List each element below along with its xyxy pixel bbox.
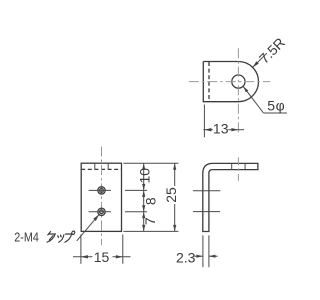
- svg-text:13: 13: [213, 121, 229, 137]
- front view bend hidden line: [81, 168, 121, 170]
- leader 7.5R: [253, 53, 267, 67]
- dimension 2.3 line: [194, 255, 203, 257]
- dimension 15 extension lines: [80, 235, 82, 264]
- side view hole centerline: [237, 157, 239, 180]
- chain dimension line 10 8 7: [143, 163, 145, 231]
- tab view bend hidden line: [208, 62, 210, 101]
- side view upper tap centerline: [193, 190, 220, 192]
- extension line top edge: [123, 162, 178, 164]
- label katakana small tsu: [57, 235, 64, 242]
- svg-text:25: 25: [163, 187, 179, 203]
- tab view (top right): outline of rounded tab 7.5R: [203, 62, 258, 102]
- svg-text:2-M4: 2-M4: [14, 230, 39, 245]
- upper hole centerline: [89, 189, 111, 191]
- plate vertical centerline: [101, 147, 103, 246]
- leader 5-phi: [243, 86, 263, 113]
- svg-text:2.3: 2.3: [176, 249, 196, 265]
- tapped hole upper M4: [98, 187, 105, 194]
- extension line lower hole: [125, 211, 147, 213]
- svg-text:5φ: 5φ: [267, 98, 285, 114]
- dimension 2.3 extension lines: [202, 235, 204, 267]
- tab vertical centerline: [237, 48, 239, 135]
- dimension 13 line: [203, 129, 212, 131]
- side view L outline: [203, 163, 258, 231]
- hole 5-phi: [232, 75, 245, 88]
- side view hole edge lines: [231, 163, 233, 169]
- side view lower tap centerline: [193, 211, 220, 213]
- front view plate outline 15x25: [81, 163, 121, 231]
- label katakana pu: [64, 231, 75, 242]
- dimension 25 line: [174, 163, 176, 186]
- dimension 15 line: [73, 256, 93, 258]
- lower hole centerline: [89, 211, 111, 213]
- tapped hole lower M4: [98, 208, 105, 215]
- extension line upper hole: [125, 189, 147, 191]
- hidden lines of 5-phi hole in plan: [94, 163, 96, 169]
- tab horizontal centerline: [189, 81, 270, 83]
- leader 2-M4 tap: [77, 215, 99, 241]
- svg-text:7: 7: [142, 217, 158, 225]
- svg-text:15: 15: [94, 249, 110, 265]
- label katakana tap (ta): [46, 232, 55, 243]
- dimension 13 extension line: [203, 105, 205, 138]
- svg-text:8: 8: [142, 197, 158, 205]
- extension line bottom edge: [123, 230, 178, 232]
- svg-text:10: 10: [137, 168, 153, 184]
